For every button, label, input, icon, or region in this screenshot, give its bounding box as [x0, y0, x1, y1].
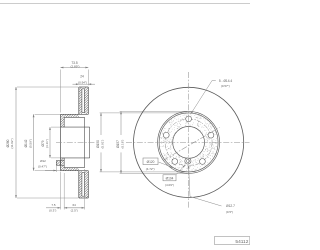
svg-text:Ø12: Ø12 — [40, 159, 46, 163]
dim D79 center bore — [49, 127, 51, 158]
section: hat wall inner surfaces — [64, 116, 84, 118]
svg-text:(5.59″): (5.59″) — [28, 139, 32, 148]
front view outer circle — [134, 87, 244, 197]
dim 7.5 flange thickness — [46, 207, 61, 209]
svg-text:Ø280: Ø280 — [6, 139, 10, 147]
svg-text:Ø120: Ø120 — [147, 160, 155, 164]
svg-text:64: 64 — [73, 203, 77, 207]
hub diagonal centerline — [163, 128, 220, 161]
svg-text:5 - Ø14.4: 5 - Ø14.4 — [219, 79, 233, 83]
bottom dim extension lines — [60, 172, 62, 210]
page top border line — [0, 3, 250, 5]
dim 64 hat depth — [64, 207, 84, 209]
section: vent channel walls — [81, 89, 83, 113]
dim D150 hat circle — [100, 113, 102, 172]
front view horizontal centerline — [126, 141, 250, 143]
svg-text:Ø104: Ø104 — [166, 177, 174, 181]
section axis centerline — [56, 142, 96, 144]
svg-text:Ø12.7: Ø12.7 — [226, 204, 235, 208]
dim D142 hat diameter — [33, 114, 35, 170]
bolt circle (dash-dot) — [165, 119, 212, 166]
stipple texture on hub face — [161, 114, 218, 171]
section: hat closed end faces — [84, 117, 86, 167]
front view center bore — [173, 126, 205, 158]
section: flange inner face — [63, 117, 65, 127]
svg-text:(2.5″): (2.5″) — [71, 209, 78, 213]
svg-text:(0.3″): (0.3″) — [49, 209, 56, 213]
section: hat outer surfaces / ring inner edges — [61, 113, 89, 115]
part number box — [214, 237, 249, 245]
svg-text:(0.5″): (0.5″) — [226, 210, 233, 214]
section: hub bore surfaces — [61, 126, 90, 128]
svg-text:(6.18″): (6.18″) — [120, 140, 124, 149]
section: mounting flange hatched — [61, 114, 65, 127]
5 bolt holes D14.4 — [186, 116, 192, 122]
svg-text:54112: 54112 — [235, 239, 248, 245]
dim 24 disc thickness — [73, 83, 79, 85]
front view vertical centerline — [188, 72, 190, 209]
dim D157 hat circle outer — [120, 111, 122, 173]
svg-text:(11.02″): (11.02″) — [10, 138, 14, 148]
set screw hole D12.7 — [185, 158, 191, 164]
svg-text:(0.57″): (0.57″) — [221, 84, 230, 88]
svg-text:24: 24 — [80, 75, 84, 79]
section: friction surfaces — [78, 87, 80, 114]
section: mounting face — [60, 114, 62, 170]
label D120 bolt circle (boxed) — [143, 158, 158, 165]
svg-text:(0.47″): (0.47″) — [38, 164, 47, 168]
section: hat wall hatched bars — [64, 114, 79, 117]
svg-text:(2.89″): (2.89″) — [71, 64, 80, 68]
section: friction ring hatched plates — [79, 87, 82, 114]
section: set screw hole through flange — [56, 161, 60, 166]
svg-text:(5.91″): (5.91″) — [100, 140, 104, 149]
svg-text:(0.94″): (0.94″) — [78, 80, 87, 84]
svg-text:(3.11″): (3.11″) — [45, 139, 49, 148]
dim D280 outer diameter — [15, 87, 17, 198]
svg-text:(4.09″): (4.09″) — [165, 183, 174, 187]
section: ring outer edges — [79, 86, 89, 88]
label D104 set hole circle (boxed) — [163, 175, 176, 181]
svg-text:7.5: 7.5 — [51, 203, 56, 207]
front view hat circles — [158, 111, 220, 173]
svg-text:(4.72″): (4.72″) — [146, 167, 155, 171]
dim 73.5 overall height — [61, 67, 89, 69]
